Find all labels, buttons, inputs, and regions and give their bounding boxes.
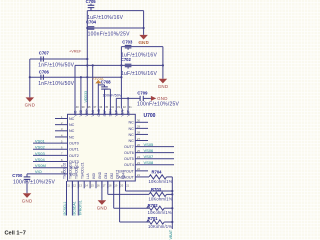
- wire: [171, 177, 173, 229]
- U700 bottom pin 21: [122, 173, 130, 189]
- svg-text:31: 31: [129, 105, 132, 109]
- svg-text:NC: NC: [128, 139, 134, 143]
- svg-text:36: 36: [99, 105, 102, 109]
- svg-text:20: 20: [120, 184, 123, 188]
- svg-text:Cell 1~7: Cell 1~7: [5, 231, 26, 237]
- svg-text:VAA: VAA: [91, 109, 95, 116]
- svg-text:19: 19: [114, 184, 117, 188]
- U700 bottom pin 20: [116, 173, 124, 189]
- svg-text:NC: NC: [69, 123, 75, 127]
- wire: [121, 46, 162, 48]
- svg-text:CB3: CB3: [116, 173, 120, 179]
- svg-text:TPROT01: TPROT01: [78, 200, 82, 215]
- svg-text:1nF/±10%/50V: 1nF/±10%/50V: [38, 62, 74, 68]
- svg-text:1uF/±10%/16V: 1uF/±10%/16V: [121, 71, 157, 77]
- svg-text:R703: R703: [151, 187, 162, 192]
- svg-text:100nF/±10%/25V: 100nF/±10%/25V: [88, 32, 131, 38]
- svg-text:VS0M: VS0M: [35, 163, 46, 168]
- U700 top pin 37: [91, 105, 97, 117]
- svg-text:TEMPOUT: TEMPOUT: [116, 169, 135, 173]
- U700 right pin 30 NC: [128, 119, 148, 125]
- capacitor C700 label: [12, 173, 23, 178]
- svg-text:LLA: LLA: [86, 172, 90, 179]
- power net label +VREF: [69, 49, 82, 53]
- resistor R702: [147, 206, 174, 210]
- svg-text:SRP: SRP: [103, 109, 107, 117]
- svg-text:C702: C702: [121, 57, 132, 62]
- svg-text:GND: GND: [97, 108, 101, 116]
- U700 bottom pin 11: [63, 163, 71, 189]
- svg-text:VBAT: VBAT: [169, 229, 173, 239]
- wire: [80, 77, 82, 108]
- svg-text:CB2: CB2: [110, 173, 114, 179]
- U700 right pin 23 OUT4: [124, 161, 174, 167]
- U700 left pin 3 NC: [55, 127, 75, 133]
- svg-text:VS04: VS04: [35, 157, 46, 162]
- U700 top pin 38: [85, 105, 91, 117]
- wire: [104, 89, 106, 108]
- svg-text:17: 17: [103, 184, 106, 188]
- C700 value 100nF/±10%/25V: [13, 180, 56, 186]
- svg-text:C707: C707: [39, 50, 50, 55]
- svg-text:VIO: VIO: [35, 169, 42, 174]
- U700 right pin 28 NC: [128, 131, 148, 137]
- svg-text:TSADDLC1: TSADDLC1: [80, 162, 84, 179]
- svg-text:12: 12: [73, 184, 76, 188]
- text Cell 1~7: [5, 231, 26, 237]
- U700 top pin 33: [115, 105, 121, 117]
- wire: [162, 47, 164, 79]
- svg-text:VDD33: VDD33: [84, 91, 88, 103]
- svg-text:OUT2: OUT2: [69, 154, 79, 158]
- wire: [75, 64, 164, 66]
- svg-text:38: 38: [88, 105, 91, 109]
- capacitor C704 label: [86, 20, 97, 25]
- U700 right pin 29 NC: [128, 125, 148, 131]
- svg-text:C700: C700: [12, 173, 23, 178]
- svg-text:21: 21: [126, 184, 129, 188]
- svg-text:11: 11: [67, 184, 70, 188]
- U700 left pin 4 NC: [55, 133, 75, 139]
- wire: [101, 181, 103, 200]
- svg-text:GND: GND: [22, 199, 33, 204]
- U700 left pin 2 NC: [55, 121, 75, 127]
- wire: [126, 181, 174, 192]
- capacitor C702: [125, 64, 132, 68]
- svg-text:NC: NC: [128, 127, 134, 131]
- svg-text:VDD: VDD: [85, 109, 89, 117]
- svg-text:V1N: V1N: [121, 109, 125, 116]
- U700 top pin 31: [126, 105, 132, 117]
- svg-text:+3V3: +3V3: [139, 41, 148, 45]
- svg-text:NC: NC: [69, 135, 75, 139]
- net label TPROT01: [78, 200, 82, 215]
- svg-text:C703: C703: [122, 40, 133, 45]
- capacitor C708: [101, 87, 108, 89]
- net label VIO: [35, 169, 42, 174]
- U700 right pin 26 OUT7: [124, 143, 174, 149]
- svg-text:VS02: VS02: [35, 145, 46, 150]
- capacitor C702 label: [121, 57, 132, 62]
- R703 value 10Kohm/1%: [149, 197, 173, 202]
- U700 left pin 8 OUT3: [33, 158, 79, 164]
- svg-text:35: 35: [105, 105, 108, 109]
- R704 value 10Kohm/1%: [149, 179, 173, 184]
- C702 value 1uF/±10%/16V: [121, 71, 157, 77]
- resistor R702 label: [148, 203, 159, 208]
- wire: [71, 181, 73, 216]
- svg-text:VS08: VS08: [144, 160, 155, 165]
- svg-text:GND: GND: [97, 206, 108, 211]
- ground: [25, 97, 36, 107]
- svg-text:37: 37: [93, 105, 96, 109]
- wire: [115, 98, 117, 108]
- svg-text:OUT4: OUT4: [124, 163, 134, 167]
- svg-text:I2CSDA1: I2CSDA1: [73, 201, 77, 215]
- svg-text:10Kohm/1%: 10Kohm/1%: [149, 179, 173, 184]
- svg-text:100nF/±10%/25V: 100nF/±10%/25V: [137, 102, 180, 108]
- net label I2CSCL1: [63, 202, 67, 216]
- ground: [138, 35, 149, 45]
- capacitor C703 label: [122, 40, 133, 45]
- U700 top pin 35: [103, 105, 109, 117]
- svg-text:NC: NC: [128, 133, 134, 137]
- U700 right pin 22 TEMPOUT: [116, 167, 148, 173]
- capacitor C706: [41, 75, 44, 80]
- resistor R701 label: [148, 216, 159, 221]
- resistor R704: [149, 175, 172, 179]
- power net label +3V3: [139, 41, 148, 45]
- svg-text:V1P: V1P: [115, 109, 119, 116]
- svg-text:VS03: VS03: [35, 151, 46, 156]
- svg-text:VS05: VS05: [144, 142, 155, 147]
- wire: [29, 59, 31, 97]
- C707 value 1nF/±10%/50V: [38, 62, 74, 68]
- svg-text:V3P: V3P: [126, 109, 130, 116]
- wire: [97, 85, 99, 109]
- wire: [114, 181, 149, 208]
- resistor R704 label: [152, 170, 163, 175]
- net label VS04: [35, 157, 46, 162]
- wire: [86, 27, 144, 29]
- U700 right pin 24 OUT5: [124, 155, 174, 161]
- svg-text:C705: C705: [86, 0, 97, 4]
- C704 value 100nF/±10%/25V: [88, 32, 131, 38]
- svg-text:TSADDLC2: TSADDLC2: [74, 162, 78, 179]
- capacitor C707: [41, 56, 44, 61]
- capacitor C705: [88, 4, 95, 11]
- power symbol +3V3A: [95, 80, 101, 85]
- svg-text:OUT6: OUT6: [124, 151, 134, 155]
- svg-text:39: 39: [82, 105, 85, 109]
- ground: [158, 79, 169, 89]
- U700 bottom pin 18: [104, 173, 112, 189]
- net label VS05: [144, 142, 155, 147]
- ground: [97, 200, 108, 210]
- svg-text:GND: GND: [98, 171, 102, 179]
- wire: [87, 10, 143, 12]
- svg-text:GND: GND: [25, 103, 36, 108]
- wire: [29, 76, 122, 78]
- capacitor C700: [24, 174, 31, 193]
- U700 bottom pin 17: [98, 171, 106, 188]
- R702 value 10Kohm/1%: [148, 210, 172, 215]
- U700 top pin 32: [121, 105, 127, 117]
- svg-text:10Kohm/1%: 10Kohm/1%: [148, 210, 172, 215]
- svg-text:VS07: VS07: [144, 154, 155, 159]
- svg-text:C709: C709: [137, 91, 148, 96]
- power net label +3V3A: [92, 77, 104, 81]
- svg-text:15: 15: [91, 184, 94, 188]
- wire: [74, 65, 76, 108]
- U700 bottom pin 16: [92, 173, 100, 189]
- wire: [98, 85, 104, 87]
- svg-text:100nF/±10%/25V: 100nF/±10%/25V: [13, 180, 56, 186]
- svg-text:OUT7: OUT7: [124, 145, 134, 149]
- U700 left pin 10 VIO: [27, 170, 75, 176]
- ground: [151, 96, 168, 101]
- svg-text:VIO: VIO: [73, 110, 77, 116]
- svg-text:R704: R704: [152, 170, 163, 175]
- net label VS06: [144, 148, 155, 153]
- U700 bottom pin 15: [86, 172, 94, 188]
- U700 left pin 6 OUT1: [33, 146, 79, 152]
- svg-text:33: 33: [117, 105, 120, 109]
- capacitor C703: [125, 45, 132, 49]
- svg-text:NC: NC: [69, 129, 75, 133]
- U700 bottom pin 13: [74, 162, 82, 188]
- svg-text:SRN: SRN: [109, 109, 113, 117]
- svg-text:C706: C706: [39, 70, 50, 75]
- resistor R703: [149, 192, 173, 196]
- svg-text:TSADDL02: TSADDL02: [63, 163, 67, 179]
- C703 value 1uF/±10%/16V: [121, 53, 157, 59]
- svg-text:10Kohm/1%: 10Kohm/1%: [149, 197, 173, 202]
- U700 top pin 40: [73, 105, 79, 117]
- svg-text:13: 13: [79, 184, 82, 188]
- net label I2CSDA1: [73, 201, 77, 215]
- U700 bottom pin 12: [69, 163, 77, 189]
- capacitor C708 label: [101, 79, 112, 84]
- U700 top pin 36: [97, 105, 103, 117]
- capacitor C705 label: [86, 0, 97, 4]
- U700 right pin 25 OUT6: [124, 149, 174, 155]
- svg-text:1nF/±10%/50V: 1nF/±10%/50V: [38, 81, 74, 87]
- svg-text:14: 14: [85, 184, 88, 188]
- wire: [86, 11, 88, 109]
- net label VS01: [35, 139, 46, 144]
- net label VS03: [35, 151, 46, 156]
- svg-text:18: 18: [109, 184, 112, 188]
- svg-text:TSADDL01: TSADDL01: [69, 163, 73, 179]
- net label VS07: [144, 154, 155, 159]
- C706 value 1nF/±10%/50V: [38, 81, 74, 87]
- svg-text:NC: NC: [128, 121, 134, 125]
- svg-text:GND: GND: [157, 96, 168, 101]
- wire: [120, 47, 122, 109]
- net label VS08: [144, 160, 155, 165]
- U700 top pin 39: [79, 105, 85, 117]
- wire: [30, 58, 89, 60]
- wire: [127, 98, 129, 108]
- net label VDD33: [84, 91, 88, 103]
- svg-text:OUT1: OUT1: [69, 148, 79, 152]
- svg-text:C708: C708: [101, 79, 112, 84]
- IC U700 body: [68, 114, 136, 181]
- svg-text:32: 32: [123, 105, 126, 109]
- ground: [22, 193, 33, 203]
- net label VS0M: [35, 163, 46, 168]
- svg-text:R701: R701: [148, 216, 159, 221]
- U700 right pin 27 NC: [128, 137, 148, 143]
- U700 top pin 34: [109, 105, 115, 117]
- wire: [116, 97, 140, 99]
- svg-text:10Kohm/1%: 10Kohm/1%: [148, 224, 172, 229]
- wire: [120, 181, 149, 222]
- svg-text:16: 16: [97, 184, 100, 188]
- svg-text:NC: NC: [69, 117, 75, 121]
- capacitor C709 label: [137, 91, 148, 96]
- wire: [66, 181, 68, 216]
- svg-text:OUT0: OUT0: [69, 142, 79, 146]
- wire: [92, 65, 94, 108]
- svg-text:WDI: WDI: [92, 173, 96, 179]
- net label VBAT: [169, 229, 173, 239]
- svg-text:I2CSCL1: I2CSCL1: [63, 202, 67, 216]
- wire: [108, 181, 149, 194]
- svg-text:+VREF: +VREF: [69, 49, 82, 53]
- svg-text:CB4: CB4: [122, 173, 126, 179]
- wire: [105, 89, 111, 108]
- C709 value 100nF/±10%/25V: [137, 102, 180, 108]
- C705 value 1uF/±10%/16V: [87, 15, 123, 21]
- svg-text:40: 40: [76, 105, 79, 109]
- resistor R703 label: [151, 187, 162, 192]
- R701 value 10Kohm/1%: [148, 224, 172, 229]
- U700 right pin 21 ADAOUT: [118, 173, 149, 179]
- svg-text:OUT5: OUT5: [124, 157, 134, 161]
- wire: [77, 181, 79, 216]
- net label VS02: [35, 145, 46, 150]
- svg-text:34: 34: [111, 105, 114, 109]
- capacitor C706 label: [39, 70, 50, 75]
- svg-text:100nF/50V: 100nF/50V: [103, 93, 122, 98]
- U700 left pin 5 OUT0: [33, 139, 79, 145]
- U700 bottom pin 19: [110, 173, 118, 189]
- capacitor C707 label: [39, 50, 50, 55]
- U700 bottom pin 14: [80, 162, 88, 188]
- U700 left pin 9 TEMP: [33, 164, 80, 170]
- resistor R701: [147, 220, 174, 224]
- U700 left pin 7 OUT2: [33, 152, 79, 158]
- capacitor C704: [88, 27, 95, 30]
- C708 value 100nF/50V: [103, 93, 122, 98]
- svg-text:GND: GND: [158, 84, 169, 89]
- wire: [143, 11, 145, 35]
- IC U700 refdes: [144, 113, 156, 119]
- svg-text:VS01: VS01: [35, 139, 46, 144]
- svg-text:CB1: CB1: [104, 173, 108, 179]
- U700 left pin 1 NC: [55, 115, 75, 121]
- svg-text:U700: U700: [144, 113, 156, 119]
- capacitor C709: [140, 96, 151, 101]
- svg-text:V3B: V3B: [79, 109, 83, 116]
- svg-text:VS06: VS06: [144, 148, 155, 153]
